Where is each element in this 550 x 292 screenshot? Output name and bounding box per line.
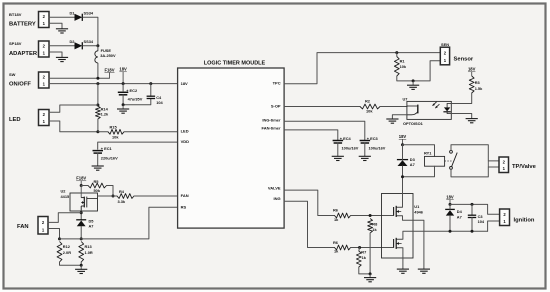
ground (EC2/C4) [117, 105, 129, 113]
resistor R3 [469, 76, 474, 93]
wire BATTERY pin1 to ground [49, 23, 62, 28]
wire 18V to EC2 [122, 84, 124, 91]
label BT18V [9, 12, 22, 17]
wire FAN-timer to EC4 [284, 130, 338, 141]
node F18V at fuse output [96, 77, 99, 80]
wire R4 to module FAN pin [134, 195, 178, 197]
power flag 18V (relay) [399, 134, 407, 145]
svg-text:BT18V: BT18V [9, 12, 22, 17]
svg-text:3A-250V: 3A-250V [100, 53, 116, 58]
connector J1 BATTERY [39, 12, 50, 28]
svg-text:U7: U7 [403, 96, 408, 101]
wire R6 to U1 lower gate [351, 247, 394, 249]
svg-text:4415: 4415 [61, 194, 70, 199]
pin LED (module) [181, 129, 189, 134]
wire D4 cathode lead [449, 204, 451, 209]
node C3 top junction [471, 203, 474, 206]
label C4 [156, 95, 162, 100]
diode D3 [397, 160, 408, 166]
svg-text:R13: R13 [85, 244, 93, 249]
label R1 [400, 59, 406, 64]
wire sense rail to module RS pin [60, 207, 178, 239]
svg-text:ADAPTER: ADAPTER [9, 51, 38, 57]
pin TPC (module) [273, 80, 281, 85]
ground (gate pulldowns) [364, 274, 376, 282]
wire relay coil to drain node [403, 166, 435, 177]
wire D3 cathode lead [402, 145, 404, 160]
node LED anode junction [96, 104, 99, 107]
resistor R14 [96, 106, 101, 119]
pin S-OP (module) [271, 104, 281, 109]
label 1k (R7) [362, 255, 367, 260]
svg-text:SEN: SEN [441, 42, 449, 47]
pin FAN-timer (module) [261, 126, 281, 131]
wire D1 cathode to F18V node [83, 17, 98, 46]
power flag 18V (ignition) [446, 194, 454, 204]
label FAN [17, 224, 29, 230]
label A7 (D4) [457, 214, 462, 219]
svg-text:LED: LED [9, 117, 21, 123]
svg-text:ON/OFF: ON/OFF [9, 81, 31, 87]
label 10k (R1) [400, 64, 407, 69]
svg-text:Ignition: Ignition [514, 217, 535, 223]
label 100u/16V (EC3) [369, 146, 386, 151]
label R7 [361, 250, 366, 255]
relay RY1 coil [425, 156, 445, 166]
fuse F1 3A-250V [95, 51, 98, 63]
label Ignition [514, 217, 535, 223]
wire EC4 to ground [337, 143, 339, 156]
wire U2 drain down to FAN node [80, 211, 82, 220]
ground (fan sense) [75, 265, 87, 273]
svg-text:3.3k: 3.3k [118, 199, 126, 204]
node TPC at R1 [395, 51, 398, 54]
wire D5 anode to sense rail [80, 226, 82, 239]
power flag 18V (rail) [119, 67, 127, 84]
svg-text:TP/Valve: TP/Valve [512, 164, 537, 170]
wire R14 to LED cathode line [97, 119, 99, 132]
svg-text:+ EC1: + EC1 [101, 146, 113, 151]
node sensor ground junction [412, 79, 415, 82]
wire fuse to F18V line [97, 63, 99, 78]
wire R6 to U1 upper gate [351, 215, 394, 217]
label + EC3 [367, 136, 379, 141]
label FUSE [101, 48, 112, 53]
node D5 anode junction [80, 237, 83, 240]
wire LED pin1 to LED net [49, 121, 98, 132]
svg-text:F18V: F18V [104, 67, 114, 72]
label U7 [403, 96, 408, 101]
wire node to fuse [97, 46, 99, 51]
svg-text:50k: 50k [94, 188, 101, 193]
svg-text:18V: 18V [181, 81, 188, 86]
node diode-OR output junction [96, 44, 99, 47]
capacitor C3 104 [468, 215, 476, 217]
node 18V ignition junction [449, 203, 452, 206]
svg-text:SW: SW [9, 72, 16, 77]
label A7 (D5) [89, 224, 94, 229]
svg-text:18V: 18V [468, 67, 476, 72]
label RY1 [424, 151, 432, 156]
resistor R7 [356, 251, 361, 267]
svg-text:R12: R12 [63, 244, 71, 249]
label 100u/16V (EC4) [342, 146, 359, 151]
svg-text:+ EC2: + EC2 [126, 88, 138, 93]
svg-text:BATTERY: BATTERY [9, 21, 36, 27]
resistor R4 [117, 194, 134, 199]
resistor R12 [57, 242, 62, 263]
label TP/Valve [512, 164, 537, 170]
wire R15 to module LED pin [124, 131, 178, 133]
capacitor C4 104 [147, 96, 156, 98]
svg-text:RY1: RY1 [424, 151, 432, 156]
wire R13 bottom lead [80, 262, 82, 265]
ground (EC1) [92, 166, 104, 170]
power flag F18V (fan driver) [76, 176, 86, 186]
label R2 [365, 99, 371, 104]
connector J7 TP/Valve [499, 157, 509, 173]
svg-text:47u/35V: 47u/35V [128, 97, 143, 102]
wire D3 anode lead [402, 166, 404, 177]
label R8 [372, 221, 378, 226]
ground (U1-B source) [397, 269, 409, 273]
resistor R2 [360, 104, 380, 109]
label U1 [414, 204, 420, 209]
diode D1 [75, 14, 83, 21]
svg-text:FAN: FAN [181, 193, 189, 198]
svg-text:18V: 18V [399, 134, 407, 139]
power flag 18V (R3) [468, 67, 476, 76]
svg-text:R7: R7 [361, 250, 366, 255]
label Sensor [454, 56, 474, 62]
wire R5 to gate node [107, 186, 114, 197]
ground (sensor) [407, 81, 419, 90]
connector J3 ON/OFF [39, 72, 50, 88]
wire ING-timer to EC3 [284, 121, 365, 140]
wire TP/Valve stub join [487, 161, 489, 167]
node 18V relay junction [401, 143, 404, 146]
node U2 gate junction [112, 195, 115, 198]
svg-text:OPTOISO1: OPTOISO1 [403, 121, 424, 126]
label ADAPTER [9, 51, 38, 57]
power flag F18V (switch) [104, 67, 114, 78]
wire C3 bottom lead [471, 218, 473, 232]
svg-text:TPC: TPC [273, 80, 281, 85]
svg-text:A7: A7 [89, 224, 94, 229]
label SS34 (D2) [84, 39, 94, 44]
label 10k (R2) [366, 109, 373, 114]
svg-text:+ EC3: + EC3 [367, 136, 379, 141]
svg-text:D2: D2 [70, 39, 76, 44]
svg-text:R15: R15 [110, 125, 118, 130]
svg-text:A7: A7 [457, 214, 462, 219]
label 3.3k (R4) [118, 199, 126, 204]
node relay drain junction [401, 175, 404, 178]
svg-text:R4: R4 [119, 189, 125, 194]
pin ING-timer (module) [262, 118, 281, 123]
ground (opto input side) [386, 119, 398, 123]
transistor U1-A (upper N-MOSFET) [394, 206, 403, 217]
node LED net junction [96, 130, 99, 133]
label SEN [441, 42, 449, 47]
svg-text:1.2k: 1.2k [101, 111, 109, 116]
svg-text:10k: 10k [112, 135, 119, 140]
label 1k (R6 ing) [334, 249, 339, 254]
connector J8 Ignition [500, 209, 510, 226]
wire ON/OFF pin2 (F18V line) [49, 77, 110, 79]
label 47u/35V (EC2) [128, 97, 143, 102]
svg-text:D3: D3 [410, 157, 416, 162]
ground (EC4) [332, 156, 344, 160]
wire VDD from module to EC1 [98, 142, 178, 149]
label D4 [457, 209, 463, 214]
svg-text:18V: 18V [119, 67, 127, 72]
op-amp U3 LOGIC TIMER MOUDLE block [178, 68, 285, 228]
wire contact NO to TP/Valve pin1 [451, 167, 499, 177]
wire EC1 to ground [97, 153, 99, 166]
transistor U1 4946 (dual N-MOSFET) package box [382, 194, 414, 259]
label D2 [70, 39, 76, 44]
label 1k (R6 valve) [334, 217, 339, 222]
label LOGIC TIMER MOUDLE (title) [204, 60, 266, 66]
node valve gate junction [369, 214, 372, 217]
svg-text:FAN: FAN [17, 224, 29, 230]
wire D2 cathode to node [83, 45, 97, 47]
resistor R5 [88, 183, 107, 188]
ground (U1-A source) [418, 269, 430, 273]
svg-text:ING: ING [273, 196, 280, 201]
wire R8 to ground rail [369, 233, 371, 274]
svg-text:R2: R2 [365, 99, 371, 104]
label + EC1 [101, 146, 113, 151]
label 220u/16V [101, 156, 118, 161]
svg-text:10k: 10k [400, 64, 407, 69]
svg-text:U1: U1 [414, 204, 420, 209]
capacitor EC3 100u/16V [360, 141, 371, 144]
label 3A-250V [100, 53, 116, 58]
svg-text:U2: U2 [61, 188, 67, 193]
resistor R8 [368, 219, 373, 234]
svg-text:104: 104 [156, 100, 163, 105]
label 1.0R (R13) [85, 250, 93, 255]
svg-text:4946: 4946 [414, 210, 423, 215]
connector J4 LED [39, 110, 50, 126]
diode D5 [76, 220, 86, 226]
svg-text:1.0R: 1.0R [85, 250, 93, 255]
wire U1-A source to ground [403, 216, 424, 269]
label OPTOISO1 [403, 121, 424, 126]
label + EC2 [126, 88, 138, 93]
node EC2 ground junction [122, 103, 125, 106]
ground (adapter) [56, 57, 68, 61]
svg-text:104: 104 [478, 219, 485, 224]
label 104 (C3) [478, 219, 485, 224]
label LED [9, 117, 21, 123]
node sense rail at R12 [58, 237, 61, 240]
svg-text:SP18V: SP18V [9, 41, 22, 46]
label 1.5k (R3) [475, 86, 483, 91]
resistor R6 (valve gate) [335, 213, 351, 218]
label 1k (R8) [372, 227, 377, 232]
wire R1 bottom to sensor pin1 [397, 61, 441, 81]
svg-text:R8: R8 [372, 221, 378, 226]
wire 18V to C4 [150, 84, 152, 97]
wire D4 anode to ignition line [449, 216, 451, 231]
node R12/R13 ground junction [80, 264, 83, 267]
svg-text:100u/16V: 100u/16V [369, 146, 386, 151]
connector J2 ADAPTER [39, 41, 50, 57]
svg-text:+ EC4: + EC4 [340, 136, 352, 141]
label U2 [61, 188, 67, 193]
label R12 [63, 244, 71, 249]
wire TPC to sensor line [284, 53, 440, 84]
wire contact common to TP/Valve pin2 [451, 145, 499, 161]
node 18V at EC2 [122, 82, 125, 85]
connector J6 Sensor [440, 47, 449, 65]
wire ADAPTER pin2 to D2 anode [49, 45, 75, 47]
label A7 (D3) [410, 162, 415, 167]
wire EC3 to ground [364, 143, 366, 156]
wire R7 top lead [358, 248, 361, 252]
node 18V at C4 [149, 82, 152, 85]
wire F18V to R5 [81, 185, 88, 187]
pin VALVE (module) [268, 185, 281, 190]
node D4 anode junction [449, 230, 452, 233]
node FAN+ junction [80, 211, 83, 214]
ground (EC3) [359, 156, 371, 160]
label 1.2k (R14) [101, 111, 109, 116]
node C3 bottom junction [471, 230, 474, 233]
svg-text:VDD: VDD [181, 139, 190, 144]
label SS34 (D1) [84, 11, 94, 16]
node R7/R8 ground junction [369, 272, 372, 275]
node 18V at fuse column [96, 82, 99, 85]
label R6 (valve) [333, 208, 339, 213]
label BATTERY [9, 21, 36, 27]
wire opto LED anode to R3 [451, 93, 471, 104]
label 50k (R5) [94, 188, 101, 193]
svg-text:1.5k: 1.5k [475, 86, 483, 91]
ground (opto output side) [466, 119, 478, 123]
wire opto LED cathode to ground [451, 114, 471, 119]
op-amp U7 OPTOISO1 (optocoupler) [407, 101, 451, 119]
svg-text:A7: A7 [410, 162, 415, 167]
svg-text:SS34: SS34 [84, 11, 94, 16]
label C3 [478, 214, 484, 219]
wire C3 top lead [471, 204, 473, 215]
label 10k (R15) [112, 135, 119, 140]
label SP18V [9, 41, 22, 46]
capacitor EC2 47u/35V [118, 92, 129, 95]
svg-text:F18V: F18V [76, 176, 86, 181]
label D1 [70, 11, 76, 16]
svg-text:Sensor: Sensor [454, 56, 474, 62]
wire LED pin2 up-over to R14 top [49, 105, 98, 112]
wire VALVE to R6 [284, 190, 334, 215]
node F18V fan junction [80, 184, 83, 187]
label 4415 (U2) [61, 194, 70, 199]
svg-text:SS34: SS34 [84, 39, 94, 44]
wire 18V to relay coil [403, 145, 435, 157]
label R3 [475, 80, 481, 85]
wire S-OP to R2 [284, 106, 360, 108]
transistor U1-B (lower N-MOSFET) [394, 238, 403, 249]
svg-text:D4: D4 [457, 209, 463, 214]
pin 18V (module) [181, 81, 188, 86]
wire LED net to R15 [98, 131, 108, 133]
wire U1-A drain up to relay node [402, 177, 404, 207]
wire ING to R6 lower [284, 201, 334, 247]
svg-text:R5: R5 [94, 179, 100, 184]
wire FAN pin2 up to FAN+ node [48, 213, 81, 223]
wire gate node to R4 [113, 195, 117, 197]
svg-text:R6: R6 [333, 240, 339, 245]
svg-text:ING-timer: ING-timer [262, 118, 281, 123]
wire opto emitter to ground [392, 115, 407, 119]
svg-text:D1: D1 [70, 11, 76, 16]
svg-text:LED: LED [181, 129, 189, 134]
label 4946 (U1) [414, 210, 423, 215]
wire R2 to opto input [380, 106, 407, 108]
label R14 [101, 106, 109, 111]
svg-text:R1: R1 [400, 59, 406, 64]
svg-text:100u/16V: 100u/16V [342, 146, 359, 151]
pin RS (module) [181, 205, 187, 210]
label ON/OFF [9, 81, 31, 87]
diode D2 [75, 42, 83, 49]
svg-text:220u/16V: 220u/16V [101, 156, 118, 161]
label R4 [119, 189, 125, 194]
svg-text:FAN-timer: FAN-timer [261, 126, 281, 131]
relay RY1 contact [445, 150, 458, 169]
wire BATTERY pin2 to D1 anode [49, 16, 75, 18]
wire R1 top lead [396, 53, 398, 57]
ground (battery) [56, 29, 68, 33]
label R15 [110, 125, 118, 130]
wire R12 bottom to R13 bottom [60, 262, 82, 265]
label D3 [410, 157, 416, 162]
svg-text:R6: R6 [333, 208, 339, 213]
resistor R1 [394, 57, 399, 77]
wire U1-B source to ground [402, 248, 404, 269]
label 104 (C4) [156, 100, 163, 105]
label R5 [94, 179, 100, 184]
svg-text:VALVE: VALVE [268, 185, 281, 190]
label 2.0R (R12) [63, 250, 71, 255]
wire U2 gate lead [98, 195, 114, 197]
svg-text:18V: 18V [446, 194, 454, 199]
label R13 [85, 244, 93, 249]
svg-text:10k: 10k [366, 109, 373, 114]
resistor R6 (ing gate) [335, 245, 351, 250]
wire U1-B drain to ignition line [403, 231, 488, 239]
svg-text:LOGIC TIMER MOUDLE: LOGIC TIMER MOUDLE [204, 60, 266, 66]
label D5 [89, 218, 95, 223]
wire 18V ignition top line [450, 204, 500, 214]
wire 18V column down to R14 [97, 84, 99, 106]
resistor R13 [79, 242, 84, 263]
pin FAN (module) [181, 193, 189, 198]
pin ING (module) [273, 196, 280, 201]
wire FAN pin1 to sense rail [48, 229, 60, 239]
wire ON/OFF pin1 18V rail to module [49, 83, 178, 85]
wire EC2 bottom to C4 bottom [123, 95, 151, 105]
label R6 (ing) [333, 240, 339, 245]
diode D4 [445, 209, 455, 215]
pin VDD (module) [181, 139, 190, 144]
wire ignition line to pin1 [488, 221, 500, 231]
capacitor EC1 220u/16V [93, 151, 104, 154]
